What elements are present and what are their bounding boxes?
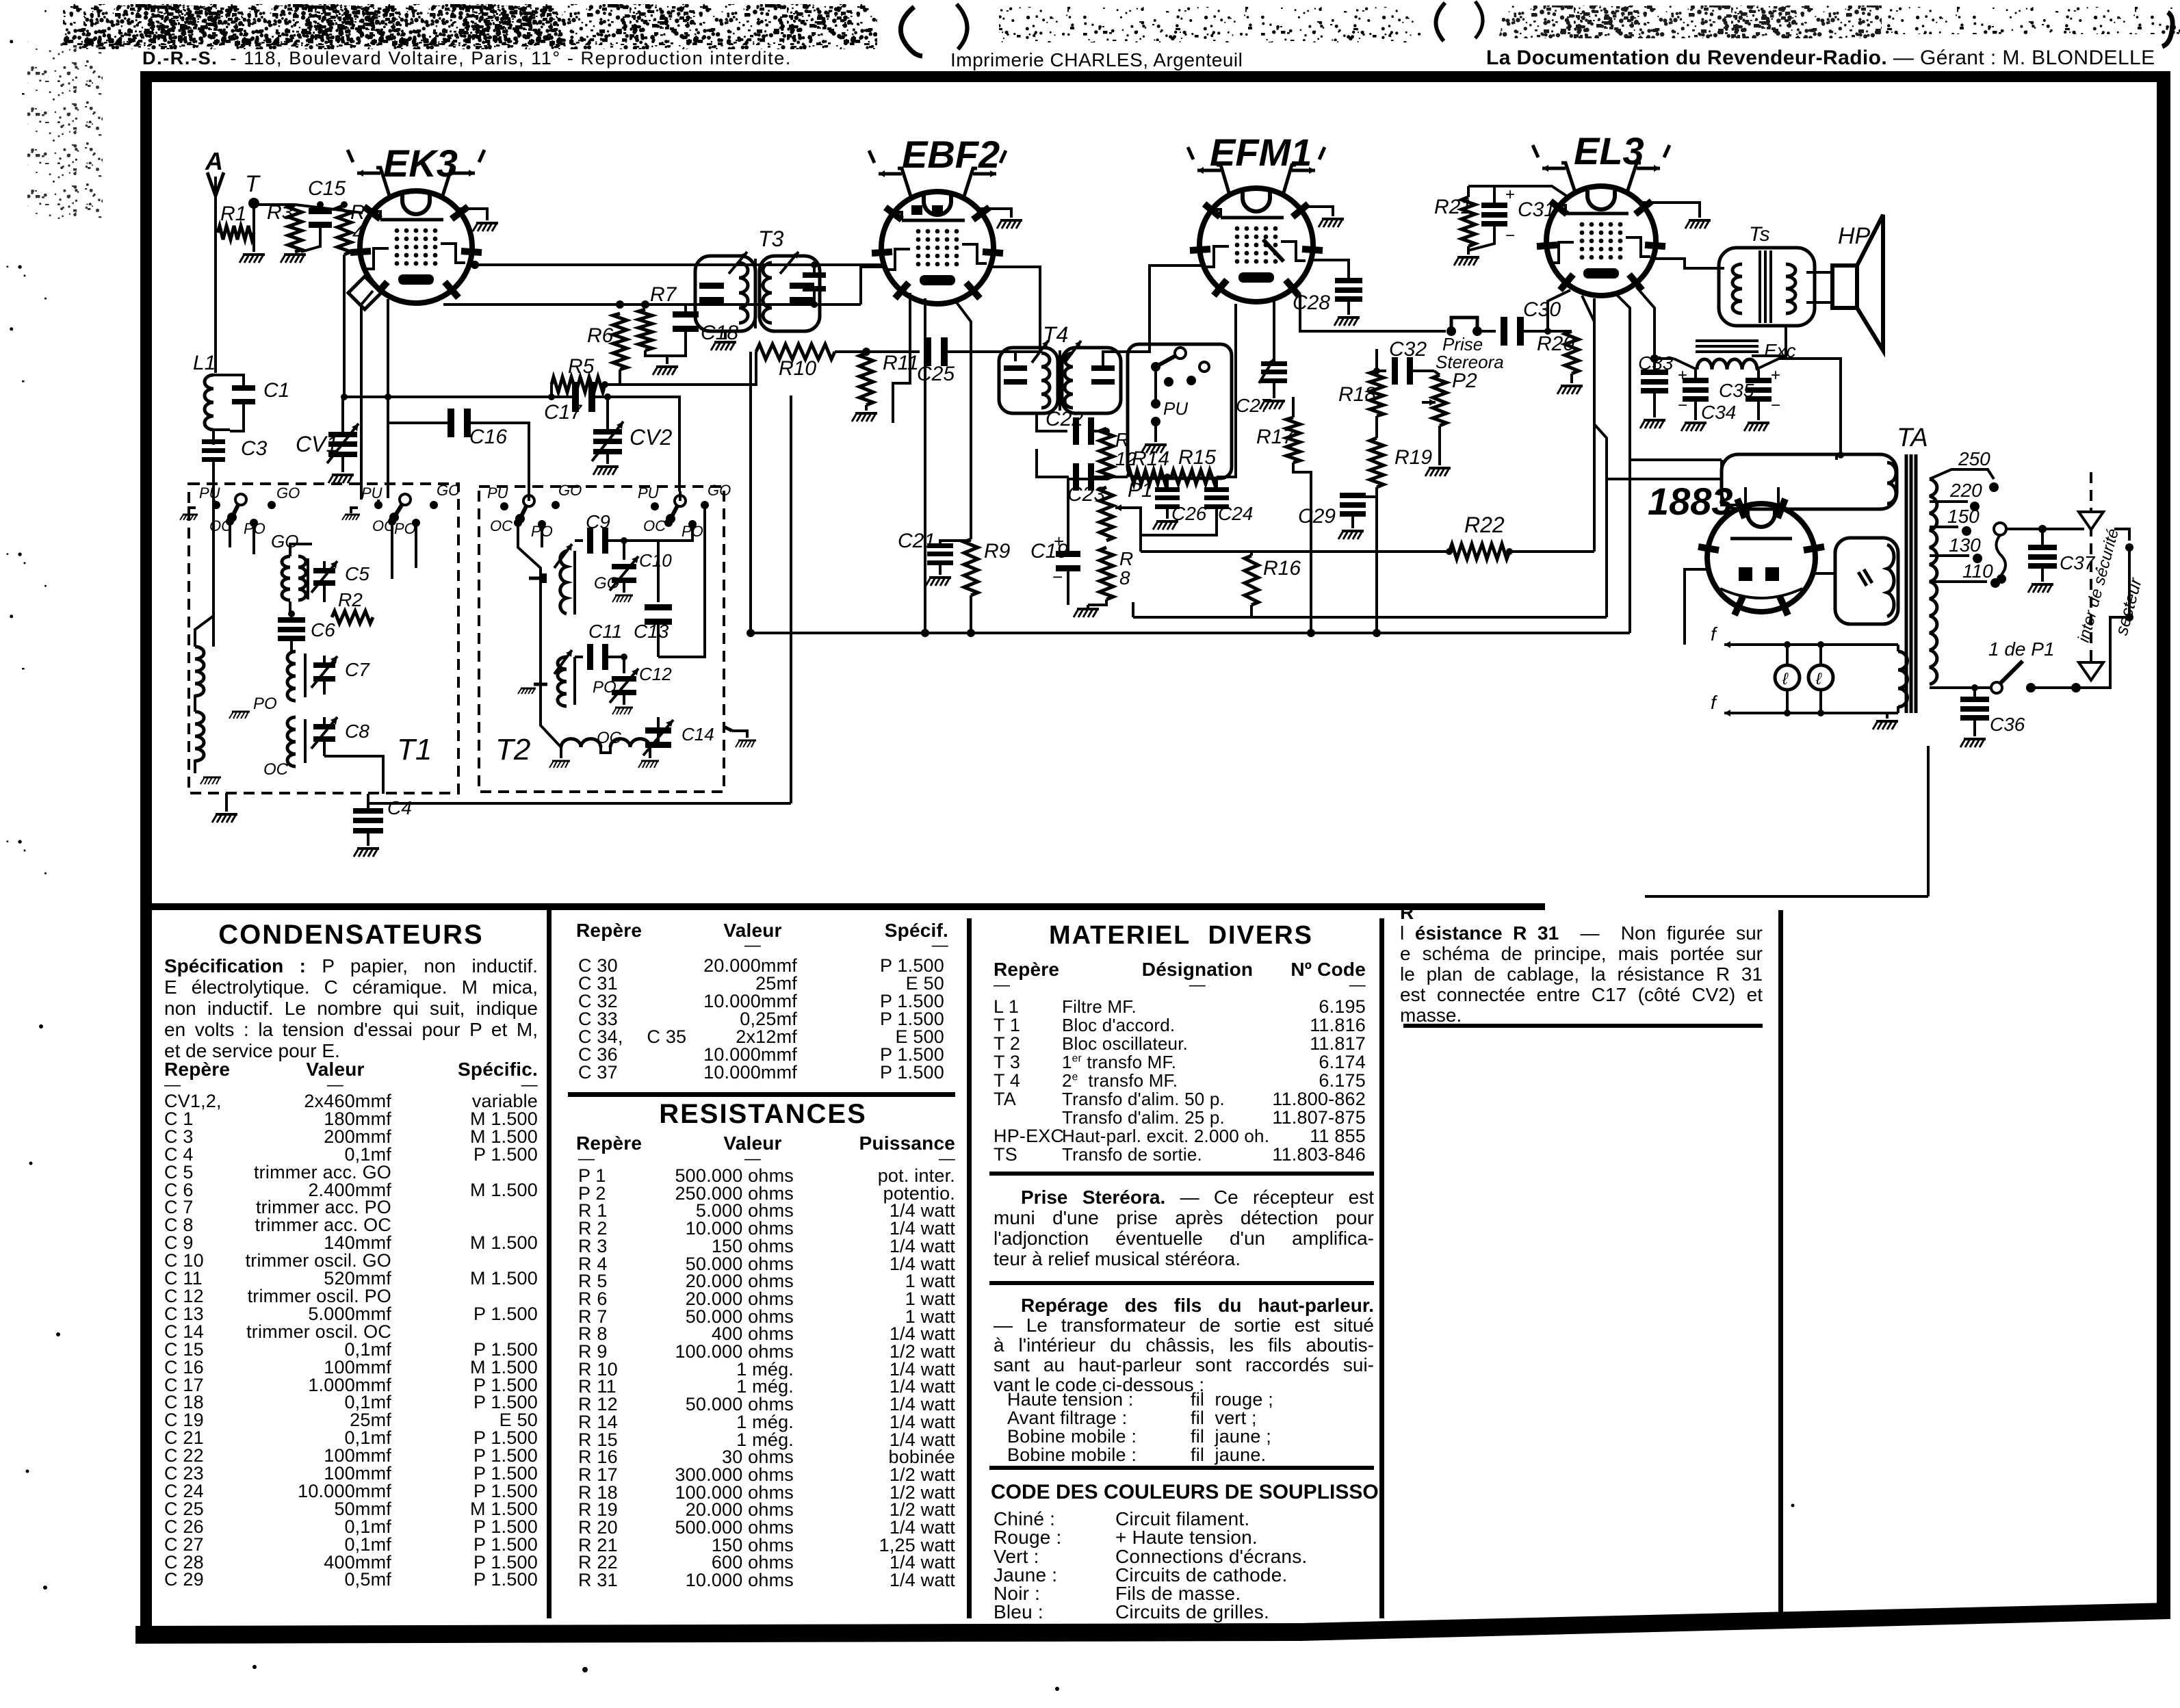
T2 trimmer C14 (657, 717, 660, 725)
svg-text:R: R (1119, 548, 1133, 569)
col3 rule b (989, 1281, 1374, 1285)
col3 rule a (989, 1172, 1374, 1176)
switch box PU (1128, 344, 1232, 478)
block T1 box (189, 484, 458, 793)
coil L1 (205, 375, 213, 430)
svg-text:R5: R5 (568, 355, 595, 378)
wire bus tail (1132, 602, 1134, 617)
svg-text:C4: C4 (387, 797, 412, 818)
resistor R16 (1250, 552, 1253, 556)
tap 110 (1930, 580, 1987, 583)
wire grid top (295, 205, 363, 213)
col2 mid rule (568, 1092, 955, 1097)
capacitor C18 (684, 305, 687, 313)
page frame border (140, 71, 2170, 82)
field coil Exc (1696, 339, 1759, 342)
capacitor C22 (1073, 417, 1079, 445)
svg-text:150: 150 (1947, 506, 1980, 527)
svg-text:C28: C28 (1293, 292, 1330, 314)
capacitor C37 (2006, 528, 2084, 530)
transformer TA primary top (1722, 456, 1837, 505)
capacitor C27 (1273, 300, 1275, 363)
voltage selector fuse (1994, 523, 2006, 535)
T2 ground right (732, 731, 747, 738)
capacitor C23 (1037, 449, 1069, 477)
T2 OC coils (561, 739, 601, 747)
wire lower bus riser (790, 396, 792, 803)
svg-text:C29: C29 (1298, 505, 1336, 528)
capacitor C16 (388, 422, 452, 424)
tube EFM1 (1199, 188, 1313, 302)
wire R14 bus (1106, 476, 1128, 478)
svg-text:EBF2: EBF2 (902, 133, 1000, 176)
svg-text:−: − (1678, 396, 1687, 415)
resistor R19 (1370, 438, 1384, 487)
svg-text:−: − (1771, 396, 1780, 415)
potentiometer P2 (1433, 375, 1446, 426)
svg-text:OC: OC (263, 760, 289, 779)
resistor R10 (756, 344, 835, 359)
svg-text:CV1: CV1 (296, 432, 338, 456)
svg-text:T: T (245, 171, 261, 197)
capacitor C24 (1215, 477, 1218, 490)
svg-text:C34: C34 (1701, 402, 1736, 423)
wire P1 wiper (1129, 508, 1141, 535)
wire EL3 cathode (1637, 287, 1655, 359)
svg-text:R9: R9 (984, 540, 1011, 562)
T1 ground below (225, 793, 228, 812)
svg-text:8: 8 (1119, 567, 1130, 588)
svg-text:C11: C11 (588, 621, 622, 642)
tap 220 (1930, 500, 1968, 503)
svg-text:220: 220 (1949, 480, 1982, 501)
svg-text:f: f (1711, 692, 1718, 713)
svg-text:R2: R2 (338, 589, 363, 610)
svg-text:R18: R18 (1338, 383, 1376, 406)
T2 PO coil (558, 657, 567, 706)
svg-text:OC: OC (597, 729, 622, 747)
svg-text:EL3: EL3 (1574, 129, 1644, 172)
wire EBF2 grid loop (861, 267, 884, 305)
svg-text:C35: C35 (1719, 380, 1754, 401)
svg-text:GO: GO (271, 531, 298, 552)
wire EL3 anode to Ts (1653, 259, 1724, 268)
terminal T (248, 198, 259, 209)
EL3 top-right pin to ground (1641, 203, 1700, 218)
pilot lamp 1 (1786, 645, 1789, 665)
svg-text:ℓ: ℓ (1815, 670, 1822, 688)
1883 top pins (1744, 487, 1747, 508)
T1 bottom coil (287, 717, 296, 766)
capacitor C32 (1377, 370, 1386, 372)
resistor R20 (1565, 331, 1579, 374)
svg-text:GO: GO (437, 482, 460, 499)
wire R4 down (343, 255, 346, 397)
wire EBF2 cathode drop (955, 300, 971, 539)
svg-text:CV2: CV2 (630, 425, 672, 450)
table divider 1 (547, 910, 552, 1618)
svg-text:PU: PU (638, 484, 659, 502)
svg-text:R21: R21 (1434, 196, 1472, 218)
inter de securite (2090, 472, 2092, 662)
svg-text:R14: R14 (1132, 448, 1169, 470)
wire EBF2 anode to T4 (991, 267, 1040, 361)
svg-text:GO: GO (276, 484, 300, 502)
svg-text:PU: PU (1163, 398, 1188, 419)
diamond on EK3 cathode lead (348, 276, 381, 309)
svg-text:R15: R15 (1178, 446, 1216, 469)
TA secondary coil (1930, 479, 1937, 684)
svg-text:C12: C12 (639, 664, 672, 684)
svg-text:+: + (1505, 185, 1515, 204)
bus B3 (368, 802, 791, 805)
T1 trimmer C7 (313, 662, 335, 668)
capacitor C3 (212, 430, 215, 445)
svg-text:EK3: EK3 (383, 142, 458, 185)
svg-text:C27: C27 (1236, 395, 1272, 416)
svg-text:R20: R20 (1537, 333, 1574, 355)
capacitor T3 secondary (813, 265, 816, 272)
svg-text:Ts: Ts (1749, 223, 1770, 246)
T1 OC coil (195, 712, 204, 761)
wire C30 to EL3 (1548, 290, 1570, 331)
svg-text:PU: PU (487, 484, 508, 502)
svg-text:C25: C25 (917, 363, 955, 385)
tube EK3 (360, 191, 472, 303)
svg-text:T2: T2 (495, 733, 530, 766)
wire to TA a (1630, 458, 1722, 461)
T2 trimmer C12 (623, 657, 625, 673)
wire to TA b (1607, 478, 1722, 480)
bus B2 (751, 632, 1630, 634)
svg-text:C17: C17 (544, 401, 582, 424)
svg-text:PO: PO (253, 695, 277, 713)
svg-text:+: + (1054, 531, 1064, 552)
svg-text:L1: L1 (193, 352, 216, 374)
svg-text:HP: HP (1838, 223, 1871, 249)
resistor R1 (218, 226, 254, 240)
tap 250 (1930, 469, 1994, 479)
svg-text:T4: T4 (1043, 322, 1068, 347)
capacitor C34 (1694, 370, 1697, 380)
capacitor C33 (1655, 357, 1674, 360)
wire T to R3 (254, 203, 295, 206)
T1 PO coil (195, 647, 204, 696)
svg-text:C14: C14 (682, 724, 714, 745)
tube 1883 (1707, 504, 1815, 612)
TA filament winding (1724, 643, 1898, 646)
capacitor C17 (572, 382, 579, 412)
capacitor CV2 (606, 397, 609, 433)
wire C17 bus (344, 396, 575, 398)
bus B1 (1133, 616, 1607, 619)
resistor R21 (1467, 186, 1470, 197)
T1 mid coil (287, 651, 296, 701)
T1 resistor R2 (332, 611, 373, 623)
resistor R15 (1171, 470, 1217, 484)
table top rule (152, 903, 1545, 910)
tube EBF2 (881, 192, 994, 304)
resistor R9 (964, 539, 978, 595)
1883 right lead (1815, 572, 1835, 575)
resistor R11 (859, 353, 873, 405)
capacitor C1 (230, 375, 244, 387)
T1 wiring (213, 500, 216, 505)
svg-text:C32: C32 (1389, 338, 1427, 361)
wire to T1 switch2 (387, 423, 389, 498)
resistor R7 (638, 309, 652, 350)
svg-text:C3: C3 (241, 437, 268, 460)
wire EK3 grid drop (361, 291, 373, 500)
svg-text:R7: R7 (650, 283, 677, 306)
resistor R14 (1128, 470, 1167, 484)
capacitor C35 (1757, 370, 1760, 380)
svg-text:C30: C30 (1523, 298, 1561, 321)
capacitor CV1 (341, 397, 344, 435)
svg-text:PU: PU (199, 484, 220, 502)
resistor R6 (613, 313, 627, 370)
EL3 drop 1 (1582, 296, 1594, 552)
svg-text:OC: OC (643, 517, 666, 534)
svg-text:GO: GO (708, 482, 731, 499)
capacitor C30 (1477, 330, 1496, 333)
col4 rule (1403, 1024, 1763, 1028)
prise stereora (1446, 326, 1456, 336)
switch I de P1 (1930, 686, 1991, 689)
svg-text:C6: C6 (311, 619, 335, 640)
capacitor C31 (1493, 186, 1496, 205)
wire EBF2 bus drop (749, 352, 752, 633)
svg-text:1 de P1: 1 de P1 (1988, 638, 2055, 660)
svg-text:+: + (1678, 366, 1687, 385)
svg-text:C10: C10 (639, 550, 672, 571)
resistor R8 (1100, 547, 1113, 599)
svg-text:T1: T1 (397, 733, 432, 766)
wire to T2 switch (627, 397, 679, 491)
potentiometer P1 (1100, 487, 1113, 541)
svg-text:+: + (1771, 366, 1780, 385)
capacitor C15 (319, 205, 322, 209)
resistor R4 (337, 205, 351, 255)
capacitor C36 (1971, 684, 1978, 691)
wire EK3 bottom-left drop (387, 299, 389, 423)
svg-text:ℓ: ℓ (1782, 670, 1789, 688)
block T2 box (479, 487, 724, 792)
T1 capacitor C6 (278, 617, 305, 623)
svg-text:R3: R3 (267, 201, 294, 224)
capacitor C19 (1068, 479, 1106, 552)
svg-text:C9: C9 (586, 511, 610, 532)
TA core (1905, 454, 1908, 713)
T2 wiring (528, 491, 530, 501)
antenna A (214, 177, 217, 373)
svg-text:C13: C13 (634, 621, 669, 642)
col3 rule c (989, 1466, 1374, 1470)
resistor R17 (1286, 417, 1300, 463)
speaker HP (1832, 266, 1857, 308)
capacitor C25 (866, 350, 920, 353)
1883 left lead (1685, 569, 1708, 645)
wire EK3 anode (472, 263, 881, 266)
EFM1 top-right pin to ground (1297, 207, 1333, 216)
T2 trimmer C10 (623, 541, 625, 560)
svg-text:C5: C5 (345, 563, 369, 584)
svg-text:R19: R19 (1394, 446, 1432, 469)
svg-text:R22: R22 (1464, 513, 1505, 537)
svg-text:R1: R1 (220, 203, 246, 225)
transformer TA primary mid (1835, 538, 1898, 624)
resistor R18 (1370, 371, 1384, 416)
table divider 2 (967, 918, 972, 1618)
resistor R22 line (1141, 550, 1449, 553)
svg-text:C7: C7 (345, 659, 370, 680)
junction dots misc (471, 261, 479, 269)
transformer T4 (999, 348, 1058, 413)
svg-text:C15: C15 (308, 177, 346, 200)
svg-text:−: − (1505, 227, 1515, 245)
svg-text:250: 250 (1958, 448, 1990, 469)
capacitor C4 (367, 794, 369, 811)
wire Ts secondary return (1752, 326, 1786, 356)
wire heater EL3 (1468, 186, 1568, 197)
T1 trimmer C5 (313, 568, 335, 573)
wire EK3 screen (443, 303, 861, 306)
svg-text:C22: C22 (1046, 408, 1083, 430)
EL3 drop 3 (1615, 293, 1630, 633)
tap 130 (1930, 554, 1969, 557)
svg-text:−: − (1052, 567, 1063, 587)
wire EBF2 drop b (893, 293, 910, 423)
svg-text:f: f (1711, 623, 1718, 645)
svg-text:EFM1: EFM1 (1210, 131, 1312, 174)
wire EBF2 drop a (924, 298, 926, 633)
pilot lamp 2 (1819, 645, 1822, 665)
svg-text:C24: C24 (1218, 503, 1253, 524)
capacitor C26 (1166, 477, 1169, 490)
T2 GO coil (560, 551, 567, 614)
EK3 top-right pin to ground (457, 209, 487, 220)
svg-text:T3: T3 (758, 227, 784, 251)
svg-text:PU: PU (361, 484, 382, 502)
bottom right wire (1645, 895, 1928, 898)
transformer Ts (1719, 248, 1815, 326)
scan noise band (63, 4, 877, 49)
wire R15 riser (1217, 304, 1236, 477)
T2 capacitor C11 (575, 656, 583, 658)
svg-text:C1: C1 (263, 379, 289, 402)
resistor R3 (288, 205, 302, 252)
svg-text:R17: R17 (1256, 426, 1295, 448)
svg-text:130: 130 (1949, 534, 1981, 556)
svg-text:C16: C16 (469, 426, 507, 448)
tube EL3 (1546, 186, 1656, 296)
capacitor C28 (1313, 260, 1349, 281)
tap 150 (1930, 526, 1958, 528)
svg-text:110: 110 (1962, 560, 1993, 582)
resistor R5 (552, 377, 605, 392)
svg-text:GO: GO (558, 482, 582, 499)
table divider 3 (1379, 918, 1384, 1618)
svg-text:P2: P2 (1452, 370, 1477, 392)
wire T4 to EFM1 grid (1103, 266, 1204, 367)
svg-text:R11: R11 (883, 352, 919, 374)
EL3 drop 2 (1594, 298, 1607, 617)
wire Ts to HP (1806, 271, 1832, 274)
table divider 4 (1778, 910, 1783, 1618)
capacitor C29 (1353, 495, 1377, 498)
svg-text:TA: TA (1897, 424, 1928, 452)
svg-text:C36: C36 (1990, 714, 2025, 735)
svg-text:C26: C26 (1171, 503, 1207, 524)
transformer T3 (695, 256, 755, 331)
T2 capacitor C9 (575, 539, 583, 542)
svg-text:C21: C21 (898, 530, 935, 552)
T2 capacitor C13 (657, 541, 660, 602)
svg-text:R10: R10 (779, 357, 816, 380)
svg-text:A: A (205, 147, 223, 175)
wire EFM1 det (1300, 294, 1446, 331)
svg-text:R16: R16 (1263, 557, 1301, 580)
capacitor C21 (940, 541, 971, 546)
T1 trimmer C8 (313, 724, 335, 729)
svg-text:R6: R6 (587, 324, 614, 347)
svg-text:OC: OC (490, 517, 512, 534)
svg-text:C8: C8 (345, 721, 369, 742)
EBF2 top-right pin to ground (978, 209, 1011, 218)
wire C22 feed (1037, 413, 1067, 431)
resistor R12 (1100, 428, 1113, 479)
